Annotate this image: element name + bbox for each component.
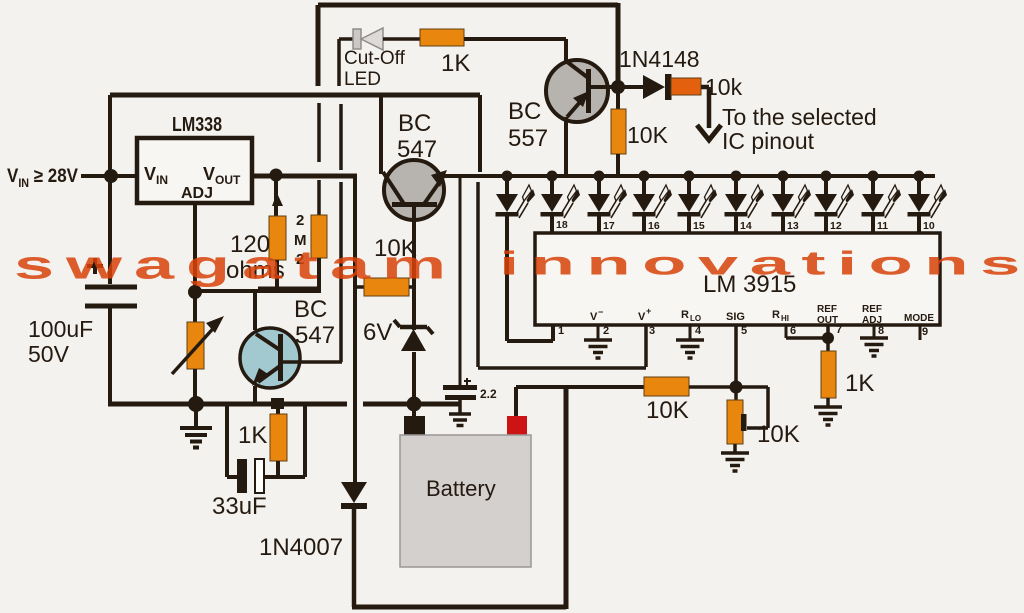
svg-text:1N4148: 1N4148: [619, 46, 700, 72]
wire arrow to selected IC pinout: [701, 87, 709, 128]
svg-text:2: 2: [296, 212, 304, 229]
wire 10K to SIG node: [689, 385, 734, 389]
transistor Q2 BC547 body: [384, 160, 444, 220]
pin 2 stub and ground: [597, 325, 600, 340]
svg-text:547: 547: [397, 136, 437, 163]
LED D9: [908, 171, 948, 234]
wire top rail of cutoff loop: [318, 3, 618, 8]
LED D15: [633, 171, 673, 234]
transistor Q1 emitter diagonal with arrow: [258, 366, 280, 382]
svg-text:11: 11: [877, 220, 888, 232]
node Vout junction: [270, 169, 283, 182]
wire 10K bottom lead to bus: [616, 154, 620, 176]
resistor preset trimmer: [187, 322, 204, 369]
transistor Q2 base bar: [392, 202, 437, 207]
capacitor 100uF plates: [85, 287, 137, 306]
svg-text:Cut-Off: Cut-Off: [344, 48, 406, 69]
wire Q1 emitter down to rail: [253, 386, 257, 404]
transistor Q3 BC557 body: [546, 60, 608, 122]
node zener rail junction: [407, 397, 422, 412]
capacitor 2.2uF plus: [464, 378, 471, 385]
svg-text:6V: 6V: [363, 319, 392, 346]
capacitor 2.2uF plates: [443, 385, 477, 390]
wire 33uF left branch from rail: [227, 404, 237, 477]
battery positive terminal: [507, 416, 527, 435]
wire left drop from top rail (to 2M2): [316, 5, 321, 86]
LED D18: [496, 171, 536, 234]
pin 1 stub: [552, 325, 555, 341]
svg-text:LED: LED: [344, 69, 381, 90]
wire Q1 base line to right: [283, 360, 342, 364]
svg-text:13: 13: [787, 220, 799, 232]
wire preset top lead: [734, 387, 738, 400]
wire LED1 long cathode to pin1: [507, 216, 553, 341]
wire 2M2 bottom lead: [317, 258, 321, 291]
wire 1K bottom lead: [276, 461, 280, 477]
node trimmer ground junction: [188, 396, 204, 412]
pin 8 stub and ground: [873, 325, 876, 338]
resistor 120 ohms: [269, 216, 286, 260]
svg-text:V: V: [638, 311, 646, 323]
wire 1K top lead: [276, 404, 280, 414]
LED cutoff indicator symbol: [339, 37, 354, 41]
pin labels row: [590, 306, 934, 324]
wire 2M2 top lead from top rail: [317, 103, 321, 216]
svg-text:547: 547: [295, 322, 335, 349]
wire ground stub below trimmer: [194, 404, 198, 427]
LED D16: [588, 171, 628, 234]
wire Vout drop down to 1N4007: [353, 176, 357, 482]
wire pin6 to pin7: [786, 336, 828, 340]
wire LED anode bus: [444, 174, 935, 178]
transistor Q2 BC547 (center) collector drop from wire A: [379, 95, 383, 174]
resistor 1K (REF): [821, 351, 836, 398]
node pin7 junction: [822, 332, 834, 344]
capacitor 33uF positive plate: [255, 459, 264, 493]
wire preset wiper loop: [736, 387, 768, 428]
wire cutoff LED cathode drop (long, to V+ corner): [339, 39, 341, 362]
svg-text:33uF: 33uF: [212, 493, 267, 520]
wire Q2 emitter down: [412, 206, 416, 330]
svg-text:1K: 1K: [845, 370, 874, 397]
svg-text:18: 18: [556, 219, 568, 231]
regulator U1 LM338 box: [137, 138, 252, 203]
capacitor 2.2uF riser from bus: [459, 176, 462, 385]
battery negative terminal: [404, 416, 425, 435]
svg-text:−: −: [598, 307, 603, 317]
resistor 10K preset: [727, 400, 743, 444]
transistor Q3 diagonals: [566, 61, 587, 117]
svg-text:2: 2: [603, 325, 609, 337]
svg-text:REF: REF: [862, 304, 882, 315]
svg-text:OUT: OUT: [817, 315, 838, 326]
wire ADJ horizontal line to 120ohm and 2M2: [195, 289, 321, 293]
ground below 1K ref: [814, 407, 842, 425]
svg-text:10K: 10K: [627, 122, 669, 148]
watermark swagatam innovations: [14, 243, 1020, 288]
wire trimmer bottom lead: [193, 369, 197, 404]
wire 2.2uF to ground: [458, 400, 462, 414]
svg-text:1N4007: 1N4007: [259, 534, 343, 561]
svg-text:1K: 1K: [441, 50, 470, 77]
svg-text:V: V: [590, 311, 598, 323]
resistor 1K (emitter): [270, 414, 287, 461]
LED D12: [772, 171, 812, 234]
transistor Q2 diagonals: [383, 172, 443, 204]
svg-text:ADJ: ADJ: [181, 185, 213, 202]
diode D2 1N4007: [341, 482, 367, 503]
svg-text:MODE: MODE: [904, 313, 934, 324]
svg-text:16: 16: [648, 220, 660, 232]
junction square 1K top: [271, 398, 284, 409]
svg-text:14: 14: [740, 220, 752, 232]
wire trimmer top lead: [193, 292, 197, 322]
pin 7 stub: [826, 325, 830, 351]
wire Q3 collector down to bus: [564, 117, 568, 176]
resistor 10K (battery sense): [644, 377, 689, 396]
node ADJ junction: [188, 285, 202, 299]
diode D1 1N4148: [618, 85, 643, 89]
pin 5 SIG stub down: [734, 325, 738, 387]
svg-text:BC: BC: [508, 98, 541, 125]
wire battery negative stub: [412, 404, 416, 416]
wire LED to 1K: [383, 37, 420, 41]
wire preset bottom: [733, 444, 737, 453]
svg-text:SIG: SIG: [726, 311, 745, 323]
svg-text:557: 557: [508, 125, 548, 152]
svg-text:5: 5: [741, 325, 747, 337]
wire x478 from bus down to V+ line: [476, 182, 480, 367]
LED D14: [678, 171, 718, 234]
svg-text:50V: 50V: [28, 341, 70, 367]
transistor Q1 base bar: [278, 334, 283, 381]
svg-text:VIN ≥ 28V: VIN ≥ 28V: [7, 166, 78, 190]
wire A: input rail from LM338 Vin to right: [110, 93, 480, 98]
tick mark on 120ohm lead: [272, 193, 283, 206]
trimmer arrow: [172, 322, 219, 374]
svg-text:REF: REF: [817, 304, 837, 315]
svg-text:LM338: LM338: [172, 114, 222, 136]
wire 1K ref bottom: [826, 398, 830, 407]
svg-text:10K: 10K: [646, 397, 689, 424]
pin numbers under LEDs: [556, 219, 935, 232]
svg-text:1: 1: [558, 325, 564, 337]
wire 1K to BC557 base: [464, 39, 566, 62]
LED D13: [725, 171, 765, 234]
wire battery positive riser and top link: [516, 387, 644, 416]
wire Q1 collector up to ADJ line: [253, 292, 257, 330]
wire 120ohm top lead: [274, 175, 278, 216]
ground below 2.2uF: [449, 414, 471, 426]
svg-text:Battery: Battery: [426, 476, 496, 501]
pin 6 stub: [785, 325, 788, 338]
svg-text:2.2: 2.2: [480, 387, 497, 401]
wire bottom return rail: [352, 605, 566, 610]
diode zener 6V: [400, 325, 427, 330]
ground below trimmer: [180, 428, 212, 448]
svg-text:BC: BC: [398, 110, 431, 137]
svg-text:9: 9: [922, 326, 928, 338]
wire V+ line pin3 to left: [478, 366, 646, 370]
IC U2 LM3915 box: [535, 233, 940, 325]
wire ground rail: [108, 402, 459, 407]
resistor 10k (to IC pinout): [671, 78, 701, 95]
resistor 1K (cutoff LED): [420, 29, 464, 46]
preset wiper bar: [741, 414, 747, 431]
wire ADJ pin down: [193, 203, 197, 292]
node BC557 emitter junction: [611, 80, 625, 94]
svg-text:R: R: [772, 309, 780, 321]
wire 10K top lead (BC557 node): [616, 87, 620, 109]
svg-text:To the selected: To the selected: [722, 104, 877, 130]
pin 3 stub down to V+ line: [644, 325, 648, 367]
wire Q3 emitter to node: [590, 85, 618, 89]
svg-text:1K: 1K: [238, 422, 267, 449]
LED D10: [862, 171, 902, 234]
pin number labels: [558, 324, 928, 338]
svg-text:17: 17: [603, 220, 615, 232]
svg-text:IC pinout: IC pinout: [722, 128, 815, 154]
resistor 2M2: [311, 215, 327, 258]
battery body: [400, 435, 531, 567]
svg-text:12: 12: [830, 220, 842, 232]
node Vin junction: [104, 169, 118, 183]
pin 4 stub and ground: [689, 325, 692, 340]
wire Vin vertical down to 100uF: [108, 95, 112, 284]
LED D11: [815, 171, 855, 234]
svg-text:+: +: [646, 306, 651, 316]
wire Vout to right: [252, 174, 357, 179]
ground below preset: [721, 453, 749, 471]
svg-text:BC: BC: [294, 296, 327, 323]
wire zener down to rail: [412, 352, 416, 416]
svg-text:10K: 10K: [757, 421, 800, 448]
svg-text:R: R: [681, 309, 689, 321]
transistor Q3 base bar: [586, 69, 591, 113]
wire Vin input stub: [81, 174, 137, 178]
svg-text:10: 10: [923, 220, 935, 232]
svg-text:8: 8: [878, 325, 884, 337]
resistor 10K horizontal (center) left lead: [355, 285, 364, 289]
svg-text:HI: HI: [781, 314, 789, 323]
svg-text:100uF: 100uF: [28, 316, 93, 342]
svg-text:7: 7: [836, 324, 842, 336]
wire 1N4007 down to bottom rail: [352, 509, 357, 607]
wire 100uF bottom to ground rail: [108, 306, 112, 406]
svg-text:4: 4: [695, 325, 702, 337]
svg-text:3: 3: [649, 325, 655, 337]
wire right drop from top rail to BC557 node: [616, 3, 621, 87]
wire corner drop x480 from wire A to LED bus: [478, 95, 482, 172]
resistor 10K horizontal (center): [364, 278, 409, 296]
svg-text:LO: LO: [690, 314, 701, 323]
wire 33uF right to riser: [264, 406, 305, 477]
transistor Q1 BC547 (blue) body: [240, 328, 300, 388]
capacitor 100uF polarity plus: [87, 258, 103, 274]
capacitor 33uF negative plate: [237, 459, 247, 493]
resistor 10K (BC557 pulldown): [611, 109, 626, 154]
node SIG junction: [730, 381, 743, 394]
resistor 10K right lead: [409, 285, 414, 289]
wire 120ohm bottom lead: [275, 260, 279, 291]
wire battery positive down leg: [564, 387, 569, 609]
pin 9 stub: [919, 325, 922, 340]
svg-text:15: 15: [693, 220, 705, 232]
LED D17: [541, 171, 581, 234]
transistor Q1 collector diagonal: [256, 334, 280, 350]
svg-text:6: 6: [790, 325, 796, 337]
